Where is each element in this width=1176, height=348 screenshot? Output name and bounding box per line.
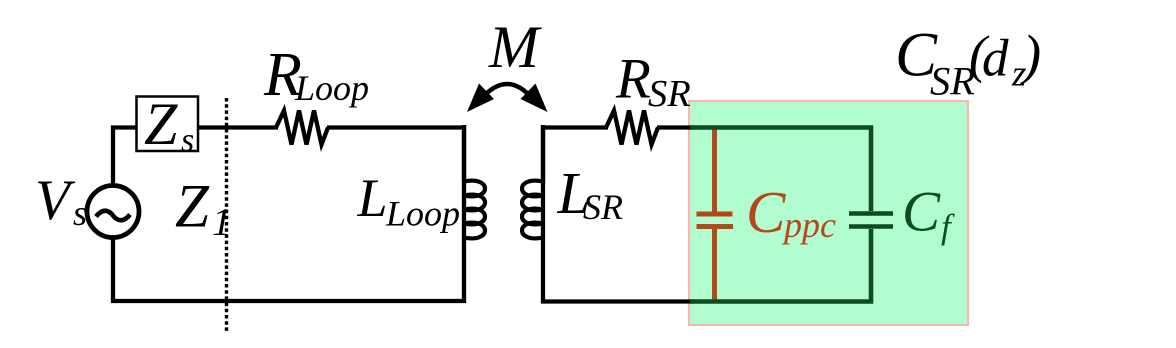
wire: left loop top-left corner to source xyxy=(113,128,137,185)
resistor R_Loop xyxy=(276,111,328,145)
svg-text:ppc: ppc xyxy=(781,205,836,245)
svg-text:SR: SR xyxy=(583,187,623,227)
wire: capacitor C_ppc top lead (red) xyxy=(712,129,717,212)
shaded region C_SR(d_z) xyxy=(689,101,968,325)
svg-text:Loop: Loop xyxy=(385,194,460,234)
svg-text:d: d xyxy=(982,30,1009,88)
wire: capacitor C_ppc bottom lead (red) xyxy=(712,229,717,302)
mutual coupling arrow M xyxy=(483,84,531,97)
svg-text:s: s xyxy=(73,193,87,233)
svg-text:C: C xyxy=(746,179,786,245)
svg-text:1: 1 xyxy=(212,201,232,244)
svg-text:R: R xyxy=(615,48,651,111)
node Z_1 reference plane (dotted line) xyxy=(225,98,228,332)
svg-text:Loop: Loop xyxy=(294,68,369,108)
svg-text:Z: Z xyxy=(175,174,210,241)
wire: left loop bottom and right side xyxy=(113,125,464,301)
wire: Z_s box to resistor R_Loop xyxy=(198,125,278,129)
resistor R_SR xyxy=(606,111,658,145)
capacitor C_ppc plates xyxy=(697,214,734,227)
wire: right loop top-left corner to resistor R_SR xyxy=(543,128,608,182)
capacitor C_f plates xyxy=(849,214,893,227)
wire: dark green top branch to capacitor C_f xyxy=(690,128,871,212)
svg-text:L: L xyxy=(357,168,388,228)
voltage source V_s circle xyxy=(87,186,139,238)
wire: right loop left side and bottom xyxy=(543,125,694,302)
wire: resistor R_Loop to left loop top-right corner xyxy=(327,128,464,182)
inductor L_SR coil xyxy=(522,181,543,239)
impedance box Z_s xyxy=(137,97,199,152)
voltage source sine symbol xyxy=(96,211,130,221)
svg-text:): ) xyxy=(1020,25,1042,87)
inductor L_Loop coil xyxy=(464,181,485,239)
svg-text:Z: Z xyxy=(144,91,178,157)
svg-text:SR: SR xyxy=(648,73,691,115)
svg-text:V: V xyxy=(35,169,76,232)
svg-text:M: M xyxy=(488,14,542,80)
svg-text:s: s xyxy=(181,122,194,159)
wire: resistor R_SR into shaded region xyxy=(657,125,694,129)
svg-text:C: C xyxy=(902,181,941,244)
wire: dark green bottom branch from capacitor C_f xyxy=(690,229,871,302)
